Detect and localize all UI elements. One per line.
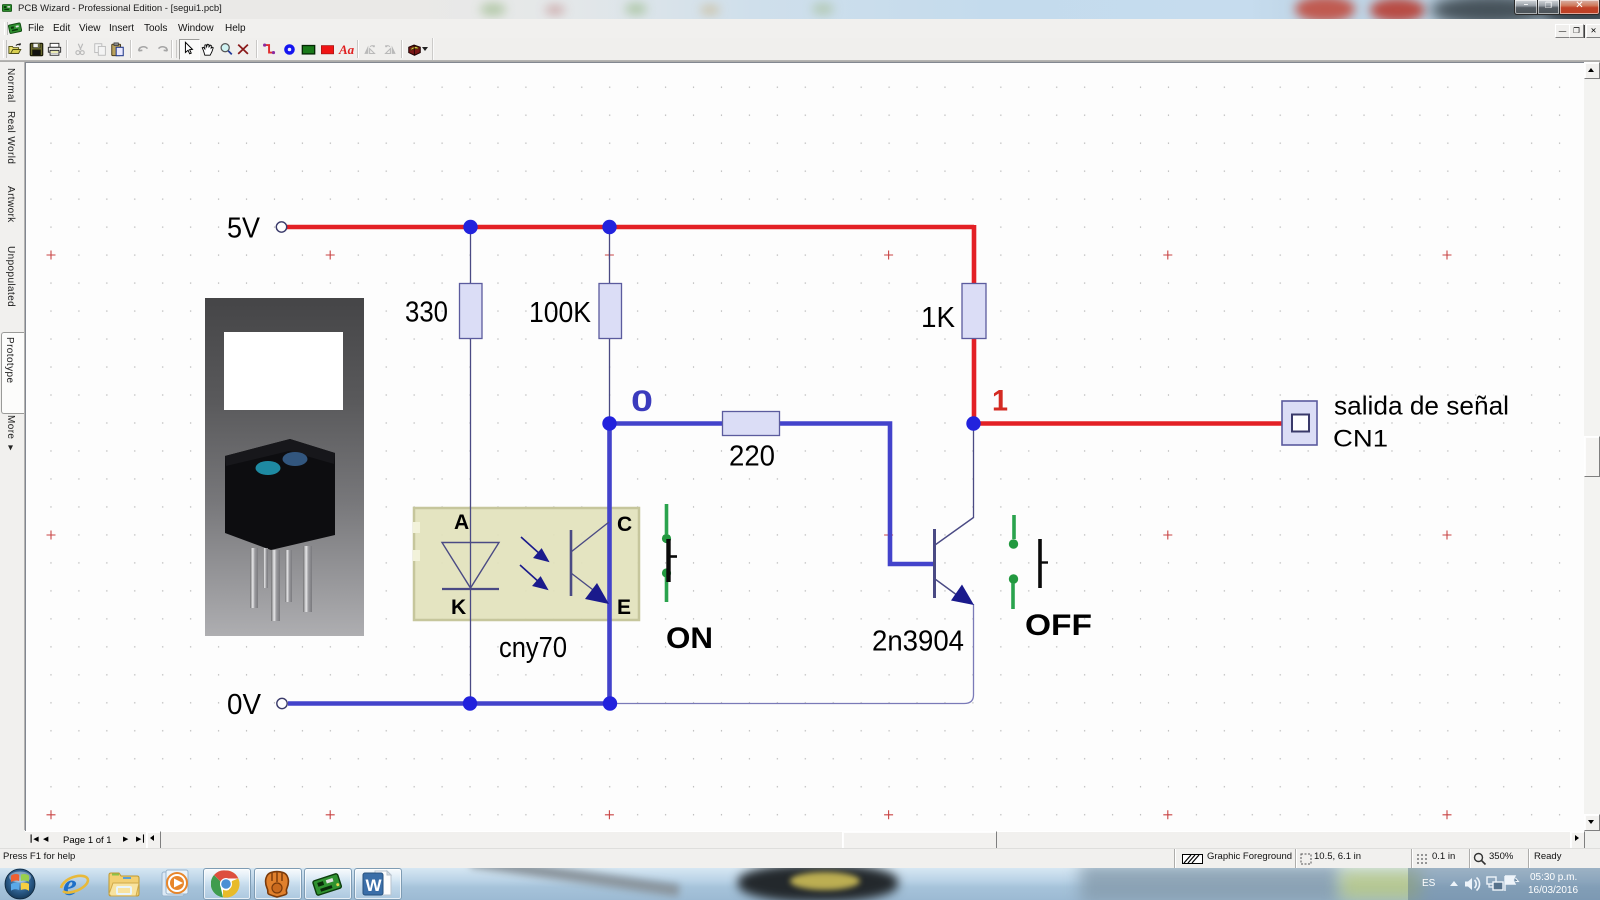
optocoupler U1 body [413,508,639,620]
PCB app button [304,868,352,900]
terminal 0V [277,698,287,708]
resistor R3 1K [921,284,986,339]
switch SW1 ON [662,504,713,655]
wire node 0 to R4 220 to transistor base (blue thick) [610,424,934,565]
svg-text:C: C [617,513,632,536]
WMP [158,869,194,899]
svg-text:2n3904: 2n3904 [872,626,964,658]
start orb [4,868,36,900]
resistor R4 220 [723,412,780,473]
svg-text:0: 0 [631,385,653,418]
svg-text:salida de señal: salida de señal [1334,391,1509,421]
svg-text:ON: ON [666,622,713,655]
junction at R2 / 5V rail [602,220,616,234]
svg-text:1: 1 [992,385,1008,418]
junction node 1 [966,416,980,430]
svg-text:220: 220 [729,441,775,473]
svg-text:CN1: CN1 [1333,426,1388,453]
switch SW2 OFF [1009,515,1092,642]
wire collector feed (thin) [973,425,975,518]
wire R2 100K branch (thin) [609,227,611,425]
light arrows [520,537,548,589]
junction at R1 / 0V rail [463,696,477,710]
wire phototransistor column (blue thick) [607,422,612,703]
wire emitter to 0V rail (thin) [610,604,974,704]
transistor Q1 2n3904 [872,518,974,658]
svg-text:5V: 5V [227,213,261,245]
wire 5V down to 1K and 1K to node 1 (red) [972,225,977,423]
IE icon [56,868,94,900]
svg-text:OFF: OFF [1025,609,1092,642]
svg-text:0V: 0V [227,689,262,721]
svg-text:1K: 1K [921,302,956,334]
Chrome app button [203,868,251,900]
wire R1 330 branch (thin) [470,227,472,703]
resistor R2 100K [529,284,622,339]
resistor R1 330 [405,284,482,339]
phototransistor of U1 [571,522,609,604]
svg-text:100K: 100K [529,297,592,329]
svg-text:W: W [366,876,383,895]
wire node 1 to CN1 (red) [972,421,1284,426]
svg-text:E: E [617,596,631,619]
svg-text:cny70: cny70 [499,632,567,664]
junction at U1 / 0V rail [603,696,617,710]
svg-text:K: K [451,596,466,619]
svg-text:A: A [454,511,469,534]
wire 0V rail (blue thick) [288,701,611,706]
svg-text:330: 330 [405,297,448,329]
junction at R1 / 5V rail [463,220,477,234]
LED D1 anode triangle (inside cny70) [442,543,499,590]
connector CN1 [1282,401,1317,445]
terminal 5V [276,222,286,232]
Word app button [354,868,402,900]
photo CNY70 sensor [205,298,364,636]
glove app button [254,868,302,900]
tray [1408,868,1600,900]
Explorer folder [107,870,141,898]
junction node 0 [602,416,616,430]
wire 5V rail (red) [287,225,974,230]
svg-text:e: e [63,868,77,900]
